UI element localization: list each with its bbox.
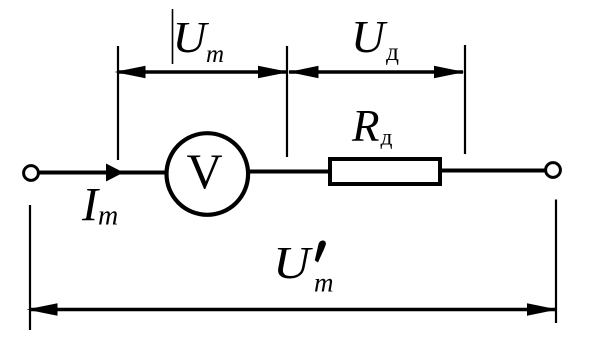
stray tick above Um xyxy=(172,9,174,64)
svg-text:д: д xyxy=(381,125,393,151)
svg-text:U: U xyxy=(173,13,210,62)
svg-text:m: m xyxy=(98,201,118,232)
extension line right (x=465) xyxy=(464,45,466,154)
svg-text:m: m xyxy=(314,268,334,298)
extension line bottom-left (x=30) xyxy=(29,205,31,330)
wire: resistor to right terminal xyxy=(440,169,546,173)
svg-text:V: V xyxy=(187,143,223,199)
svg-text:д: д xyxy=(386,37,399,66)
svg-text:R: R xyxy=(351,101,380,151)
resistor Rд xyxy=(330,159,440,184)
current arrow Im xyxy=(106,164,124,182)
extension line left (x=118) xyxy=(117,46,119,160)
svg-text:U: U xyxy=(273,238,313,288)
svg-text:U: U xyxy=(351,12,388,62)
dimension arrow Uд xyxy=(289,66,465,78)
svg-text:m: m xyxy=(206,41,224,68)
terminal: right output node xyxy=(546,163,561,178)
voltmeter V xyxy=(167,133,249,215)
wire: voltmeter to resistor xyxy=(248,170,332,174)
dimension arrow U'm xyxy=(27,303,558,315)
terminal: left input node xyxy=(24,166,39,181)
wire: left terminal to voltmeter xyxy=(39,171,168,175)
dimension arrow Um xyxy=(115,66,290,78)
extension line bottom-right (x=556) xyxy=(555,200,557,324)
extension line middle (x=287) xyxy=(286,46,288,157)
